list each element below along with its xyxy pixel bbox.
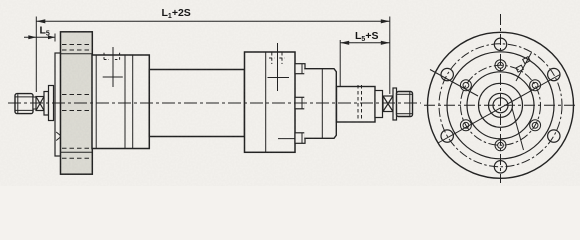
step ring right <box>375 91 383 118</box>
flange hidden bolt hole bottom (dashed) <box>62 147 91 149</box>
rear gland block (chamfered) <box>304 69 336 139</box>
gland nut collar left <box>49 86 54 121</box>
rear cap block <box>245 52 296 152</box>
mounting hole lower-left <box>441 130 453 142</box>
flange step line bottom <box>61 151 92 153</box>
piston rod threaded stub (right rod end) <box>397 92 413 117</box>
mounting hole upper-right <box>548 68 560 80</box>
cap boss middle (hex plug) <box>295 97 305 109</box>
mounting hole upper-left <box>441 68 453 80</box>
dimension extension line right (rod face) <box>389 17 391 95</box>
radial line through upper-left hole and nut <box>430 70 478 97</box>
dimension line L5 <box>24 35 55 39</box>
piston rod circle <box>493 98 508 113</box>
gland circle <box>479 83 523 127</box>
rod collar right <box>393 88 397 120</box>
gland retainer plate <box>55 53 61 156</box>
pilot circle <box>447 52 554 159</box>
flange end view: horizontal centerline <box>424 104 578 106</box>
cylinder tube circle <box>467 72 534 139</box>
plate relief notch marks <box>56 132 60 136</box>
head port hidden bore (dashed) <box>104 53 120 60</box>
cap port center cross <box>268 43 290 91</box>
tie rod nut upper-right <box>530 80 541 91</box>
subtle scan noise overlay <box>0 0 1 1</box>
piston rod threaded stub (left rod end) <box>15 94 33 114</box>
tie rod nut lower-left <box>460 120 471 131</box>
dimension line L5+S <box>340 41 390 45</box>
flange outer circle <box>428 32 574 178</box>
wrench flats box right (square with X) <box>383 96 393 112</box>
rod bushing housing <box>337 85 376 122</box>
dimension extension line L5+S left <box>339 40 341 86</box>
hidden rod lines in flange (dashed) <box>62 94 91 96</box>
cap inner edge <box>265 52 267 152</box>
flange step line top <box>61 53 92 55</box>
mounting hole bottom <box>494 161 506 173</box>
flange end view: vertical centerline <box>500 14 502 183</box>
cap boss bottom (hex plug) <box>295 133 305 144</box>
centerline of cylinder side view <box>8 102 421 104</box>
section diagonal through lower-left hole, center, upper-right hole <box>438 75 560 144</box>
cylinder head block <box>92 55 149 149</box>
dimension line L1+2S <box>36 19 390 23</box>
flange hidden bolt hole top (dashed) <box>62 44 91 46</box>
front mounting flange <box>61 32 93 174</box>
cap boss top (hex plug) <box>295 64 305 74</box>
tie rod nut top <box>495 60 506 71</box>
head inner edges <box>95 55 97 149</box>
cushion screw radial line upper-right <box>516 53 532 82</box>
wrench flats box left (square with X) <box>36 97 44 111</box>
bolt hole pitch circle (dash-dot) <box>439 44 562 167</box>
rear gland block inner edge <box>321 69 323 139</box>
tie rod nut upper-left <box>460 80 471 91</box>
rod collar left small <box>44 92 49 116</box>
mounting hole top <box>494 38 506 50</box>
dimension extension line L5 right <box>54 34 56 42</box>
cap step line <box>278 138 295 140</box>
cap port hidden bore (dashed) <box>269 53 285 65</box>
tie rod pitch circle (dash-dot) <box>461 65 541 145</box>
mounting hole lower-right <box>548 130 560 142</box>
radial line lower-right <box>512 108 524 150</box>
rod boss circle <box>489 93 513 117</box>
tie rod nut lower-right <box>530 120 541 131</box>
tie rod nut bottom <box>495 140 506 151</box>
rod neck left <box>33 97 36 109</box>
head port center cross <box>103 47 123 87</box>
dimension extension line left (rod face) <box>35 17 37 93</box>
cylinder tube <box>149 70 244 137</box>
